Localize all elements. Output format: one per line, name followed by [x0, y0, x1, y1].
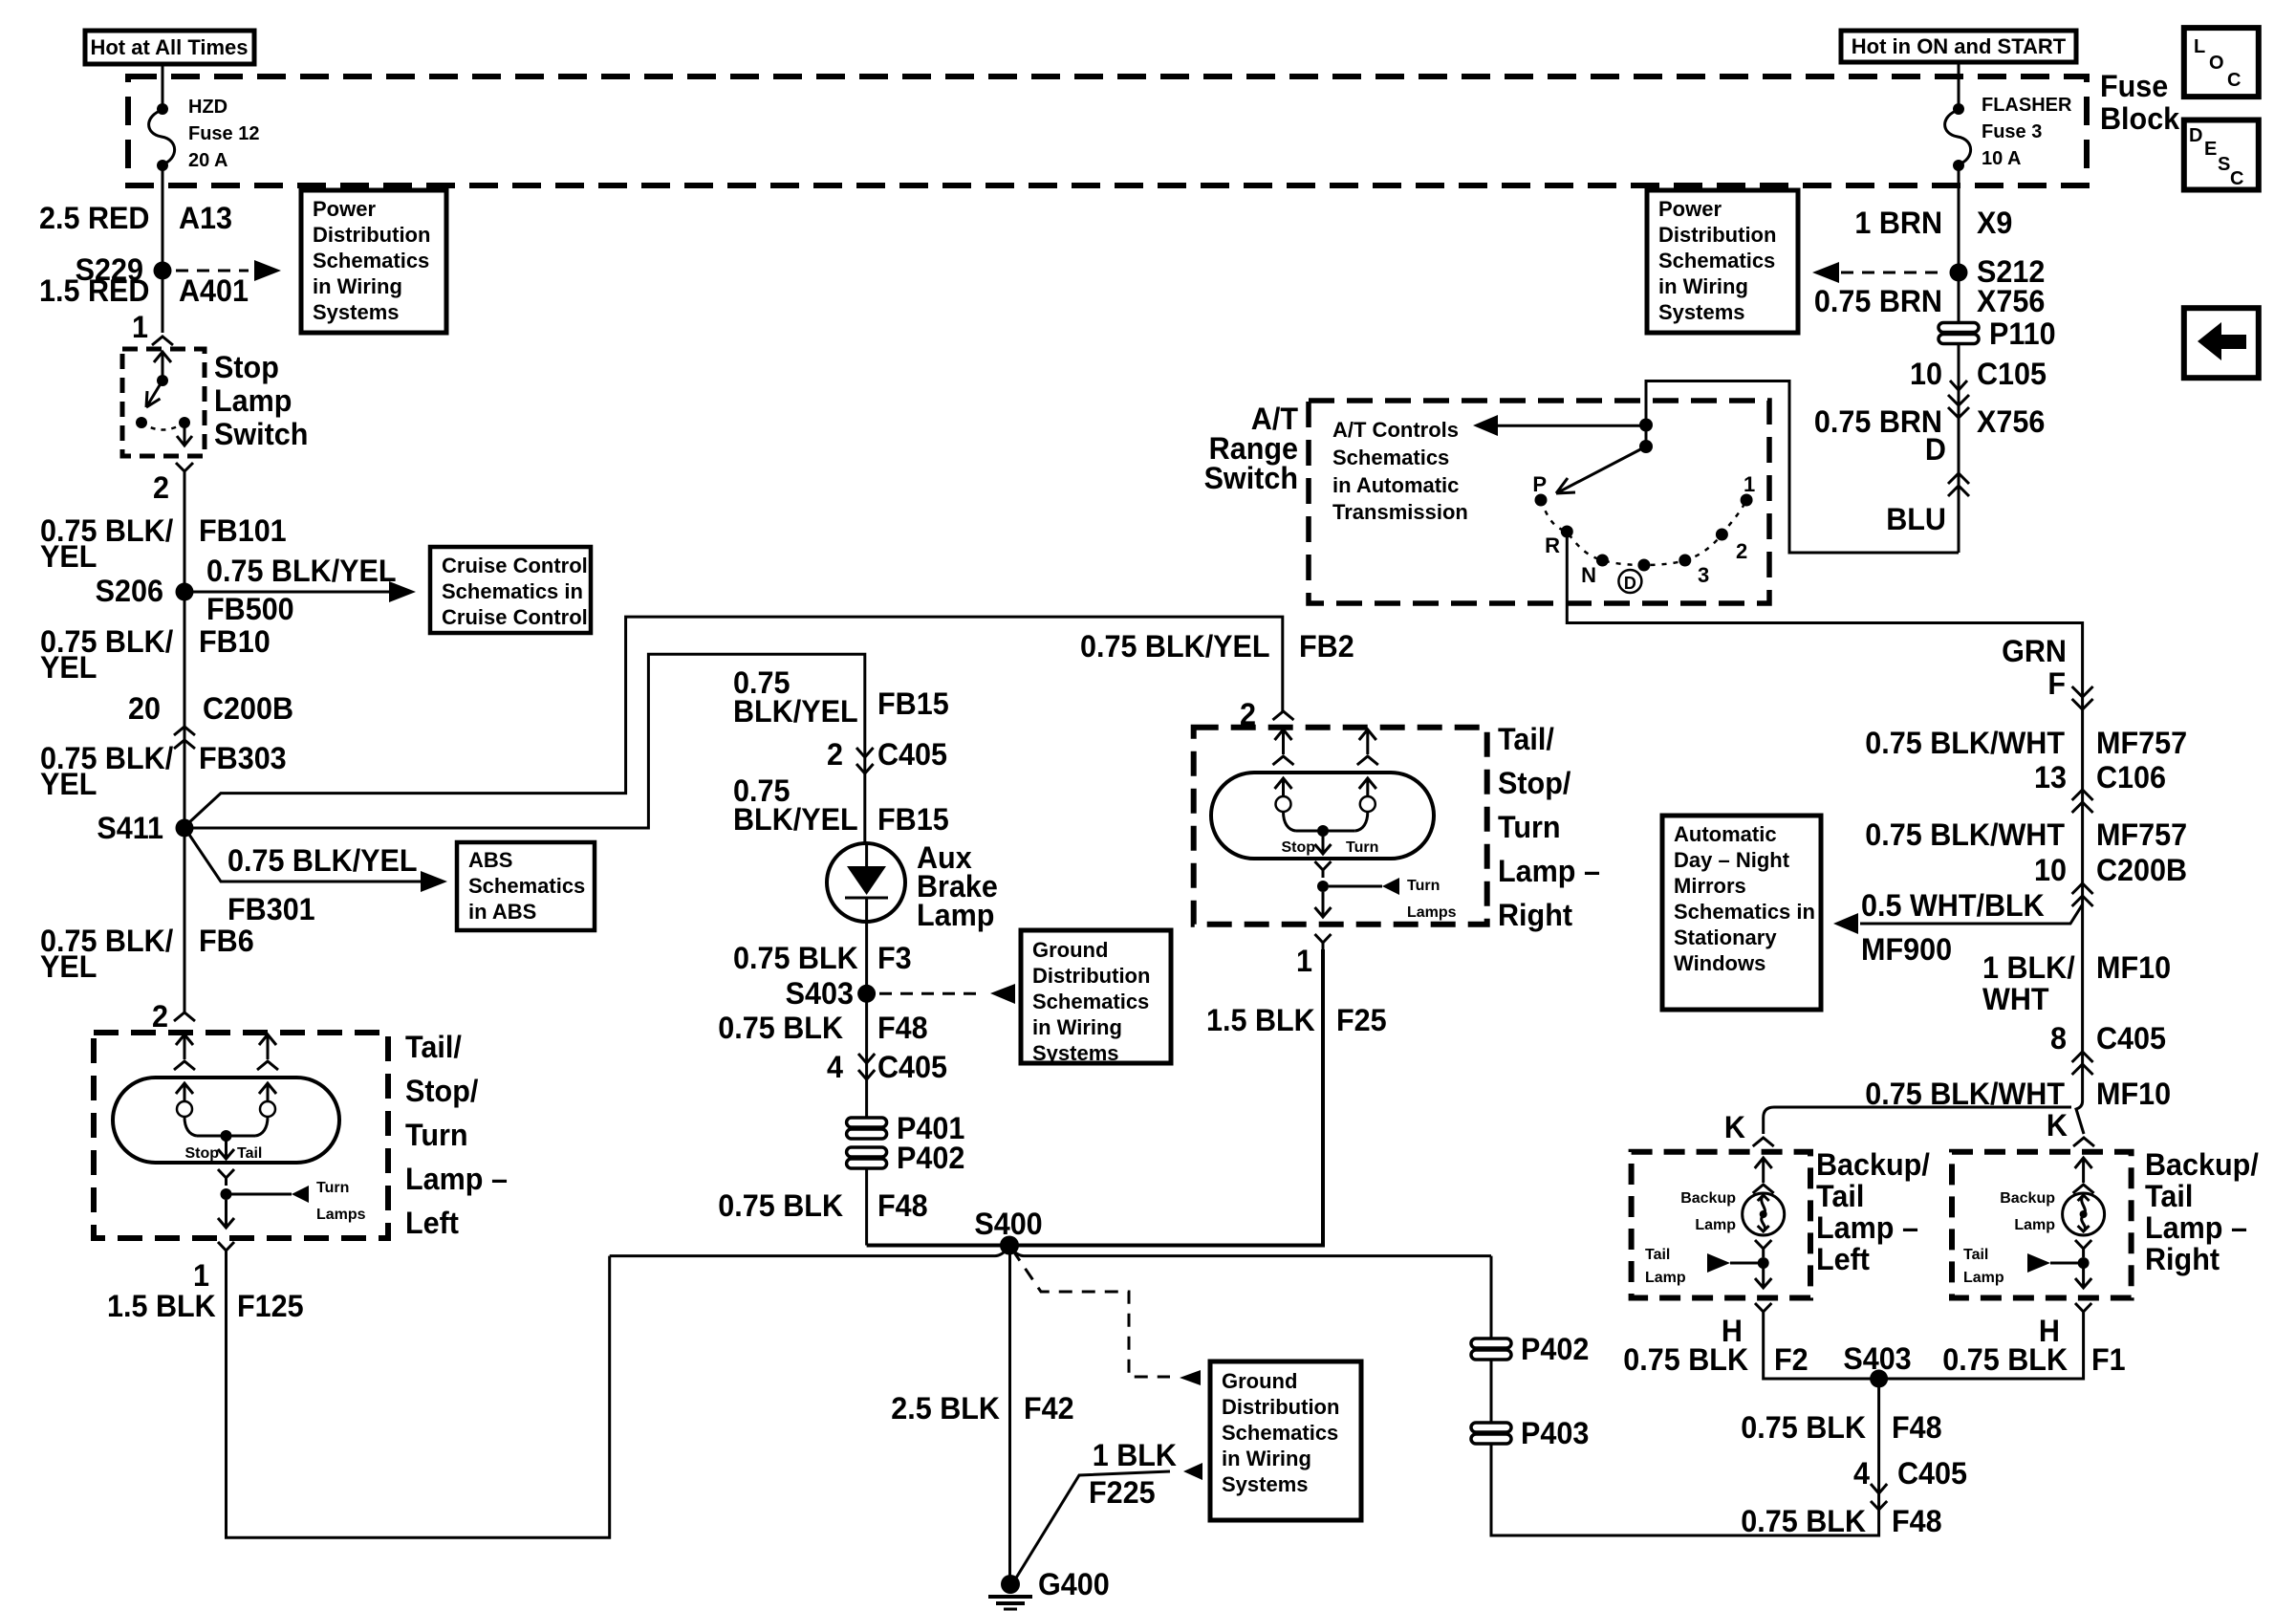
svg-text:0.75 BLK/WHT: 0.75 BLK/WHT	[1865, 816, 2065, 852]
connector C405 pin 2 labels	[827, 736, 947, 772]
svg-text:C200B: C200B	[2096, 852, 2187, 887]
svg-text:C106: C106	[2096, 759, 2166, 795]
left backup lamp pin K internal arrow	[1753, 1158, 1774, 1193]
svg-text:FB15: FB15	[877, 686, 949, 721]
connector C105 arrow and chevrons	[1948, 381, 1969, 418]
svg-text:in Wiring: in Wiring	[1658, 274, 1748, 298]
label Stop Lamp Switch	[214, 349, 308, 451]
label FLASHER Fuse 3 10 A	[1982, 95, 2072, 169]
connector C200B chevrons	[174, 727, 195, 749]
wire F42 to ground	[1008, 1246, 1011, 1585]
svg-text:Lamp: Lamp	[214, 382, 292, 418]
svg-text:1 BRN: 1 BRN	[1854, 205, 1942, 240]
wire A13	[162, 165, 164, 271]
svg-text:Distribution: Distribution	[313, 223, 430, 247]
svg-text:MF757: MF757	[2096, 816, 2187, 852]
svg-text:0.75 BLK/YEL: 0.75 BLK/YEL	[1080, 628, 1270, 664]
svg-text:S403: S403	[786, 975, 854, 1011]
svg-text:Hot in ON and START: Hot in ON and START	[1852, 34, 2067, 58]
right backup/tail lamp dashed box	[1952, 1152, 2132, 1298]
svg-text:C: C	[2227, 70, 2241, 91]
svg-text:Backup: Backup	[1680, 1190, 1736, 1207]
svg-text:D: D	[1925, 431, 1946, 467]
svg-text:S: S	[2218, 154, 2230, 175]
wire trunk through S400 to right lamp	[867, 949, 1323, 1246]
svg-text:A/T Controls: A/T Controls	[1332, 418, 1459, 442]
reference arrow to A/T controls	[1473, 415, 1646, 436]
svg-text:Tail/: Tail/	[405, 1029, 462, 1064]
svg-text:Lamp: Lamp	[1645, 1270, 1686, 1286]
svg-text:Backup/: Backup/	[2145, 1146, 2259, 1182]
svg-text:FB500: FB500	[206, 591, 294, 626]
label 0.75 BLK/YEL FB303	[40, 740, 287, 801]
A/T switch input node dots	[1639, 419, 1653, 454]
stop lamp switch pivot dot	[157, 375, 168, 386]
wire GRN from R contact to right rail	[1567, 532, 2082, 1101]
svg-text:FB15: FB15	[877, 801, 949, 837]
svg-text:FB10: FB10	[199, 623, 271, 659]
svg-text:Tail: Tail	[1963, 1247, 1988, 1263]
connector chevron below right lamp box	[1315, 934, 1332, 949]
svg-text:in ABS: in ABS	[468, 900, 536, 924]
svg-text:K: K	[1724, 1109, 1745, 1144]
label 0.75 BLK F48	[718, 1010, 927, 1045]
svg-text:in Wiring: in Wiring	[1222, 1447, 1311, 1470]
svg-text:20: 20	[128, 690, 161, 726]
DESC box	[2184, 120, 2259, 190]
svg-text:Tail: Tail	[1816, 1178, 1864, 1213]
splice S400	[974, 1206, 1042, 1254]
labels Stop Turn inside right lamp	[1281, 839, 1378, 856]
label 0.75 BLK F2	[1623, 1341, 1808, 1377]
label 1 BRN X9	[1854, 205, 2012, 240]
label 1.5 BLK F125	[107, 1288, 304, 1323]
svg-text:FLASHER: FLASHER	[1982, 95, 2072, 116]
svg-text:P: P	[1532, 472, 1547, 496]
svg-text:1.5 BLK: 1.5 BLK	[107, 1288, 216, 1323]
svg-text:X756: X756	[1977, 403, 2045, 439]
label 0.75 BLK/YEL FB10	[40, 623, 271, 685]
svg-text:YEL: YEL	[40, 538, 97, 574]
connector chevron below left backup lamp	[1755, 1303, 1771, 1319]
svg-text:F2: F2	[1774, 1341, 1809, 1377]
svg-text:Stationary: Stationary	[1674, 925, 1777, 949]
svg-text:Lamp –: Lamp –	[405, 1161, 508, 1196]
svg-text:A401: A401	[179, 272, 249, 308]
A/T range switch dashed box	[1309, 401, 1769, 603]
svg-text:K: K	[2047, 1107, 2068, 1143]
svg-text:MF900: MF900	[1861, 931, 1952, 967]
label box Hot at All Times	[85, 31, 254, 64]
wire jog into right backup lamp	[2076, 1101, 2084, 1134]
svg-text:C405: C405	[1897, 1455, 1967, 1491]
svg-text:YEL: YEL	[40, 948, 97, 984]
svg-text:F25: F25	[1336, 1002, 1387, 1037]
svg-text:Switch: Switch	[214, 416, 308, 451]
svg-text:BLU: BLU	[1886, 501, 1946, 536]
svg-text:in Wiring: in Wiring	[313, 274, 402, 298]
svg-text:0.75 BLK/YEL: 0.75 BLK/YEL	[227, 842, 418, 878]
dashed reference arrow from S229 to Power Distribution	[176, 260, 281, 281]
svg-text:0.75 BLK: 0.75 BLK	[718, 1187, 843, 1223]
connector C405 pin 4 labels	[827, 1049, 947, 1084]
label 2.5 RED A13	[39, 200, 232, 235]
label 0.75 BLK/YEL FB2	[1080, 628, 1354, 664]
left backup lamp bulb	[1743, 1193, 1785, 1235]
left backup lamp output arrow	[1755, 1263, 1771, 1288]
svg-text:Schematics: Schematics	[1032, 990, 1149, 1013]
label Fuse Block	[2100, 68, 2180, 136]
reference box Cruise Control Schematics in Cruise Control	[430, 547, 591, 633]
wire FB500 branch to cruise control	[193, 581, 416, 602]
svg-text:Right: Right	[1498, 897, 1573, 932]
svg-text:P403: P403	[1521, 1415, 1589, 1450]
svg-text:Switch: Switch	[1204, 460, 1298, 495]
connector C405 arrow and chevron (pin 2)	[856, 748, 874, 773]
connector chevron below left lamp box	[218, 1242, 234, 1258]
connector chevron below right backup lamp	[2075, 1303, 2091, 1319]
connector C405 chevrons (right)	[2072, 1052, 2093, 1075]
label Backup/Tail Lamp - Right	[2145, 1146, 2259, 1276]
left backup lamp lower chevron	[1755, 1240, 1771, 1257]
left lamp filament stop	[176, 1083, 197, 1136]
splice S212	[1950, 253, 2046, 289]
left lamp turn lamps tap dot	[221, 1188, 232, 1200]
svg-text:YEL: YEL	[40, 649, 97, 685]
label Tail/Stop/Turn Lamp - Right	[1498, 721, 1600, 932]
svg-text:MF10: MF10	[2096, 949, 2171, 985]
wire branch line below S400	[610, 1247, 1491, 1256]
splice S229	[76, 251, 172, 287]
LOC box	[2184, 28, 2259, 97]
label 1.5 RED A401	[39, 272, 249, 308]
labels Stop Tail inside left lamp	[184, 1145, 262, 1162]
right backup lamp lower chevron	[2075, 1240, 2091, 1257]
stop lamp switch dashed travel arc	[141, 423, 184, 430]
splice S403 (middle)	[786, 975, 876, 1011]
connector chevron at right lamp pin 2	[1273, 711, 1294, 720]
connector C200B chevrons (right)	[2072, 883, 2093, 906]
svg-text:Lamp: Lamp	[1963, 1270, 2004, 1286]
splice S403 (rear)	[1843, 1340, 1911, 1387]
svg-text:Turn: Turn	[1498, 809, 1561, 844]
label box Hot in ON and START	[1841, 31, 2076, 62]
label 0.75 BRN X756 (lower)	[1814, 403, 2045, 439]
svg-text:Turn: Turn	[1407, 878, 1440, 894]
svg-text:4: 4	[827, 1049, 843, 1084]
connector chevron at left lamp pin 2	[174, 1012, 195, 1021]
wire BLU routing to A/T range switch	[1646, 381, 1959, 554]
wire X9	[1958, 165, 1960, 272]
tail lamp pointer right	[1963, 1247, 2090, 1286]
pass-through grommet P401	[847, 1110, 965, 1145]
label 0.75 BLK F48 (rear lower)	[1741, 1503, 1941, 1538]
svg-text:C200B: C200B	[203, 690, 293, 726]
wire to C105	[1958, 343, 1960, 553]
splice S411	[97, 810, 193, 845]
svg-text:Backup/: Backup/	[1816, 1146, 1930, 1182]
connector C200B pin 10 labels	[2034, 852, 2187, 887]
reference box Ground Distribution Schematics in Wiring Systems (middle)	[1021, 930, 1171, 1065]
svg-text:20 A: 20 A	[188, 150, 228, 171]
left lamp second terminal internal arrow	[257, 1034, 278, 1070]
wire FB15 feed from S411 to aux brake lamp	[193, 654, 865, 828]
svg-text:F48: F48	[877, 1010, 928, 1045]
svg-text:X756: X756	[1977, 283, 2045, 318]
svg-text:FB6: FB6	[199, 923, 254, 958]
label Backup/Tail Lamp - Left	[1816, 1146, 1930, 1276]
wire MF10 branch to left backup lamp	[1764, 1107, 2071, 1134]
svg-text:Backup: Backup	[2000, 1190, 2055, 1207]
svg-text:Lamp –: Lamp –	[2145, 1209, 2247, 1245]
svg-text:X9: X9	[1977, 205, 2012, 240]
svg-text:Schematics: Schematics	[1658, 249, 1775, 272]
A/T switch D contact circled letter	[1618, 570, 1641, 593]
svg-text:Left: Left	[405, 1205, 459, 1240]
svg-text:P110: P110	[1989, 316, 2056, 351]
aux brake lamp	[827, 843, 905, 922]
svg-text:1 BLK: 1 BLK	[1093, 1437, 1177, 1472]
A/T switch contact dots	[1535, 494, 1753, 572]
label 0.75 BLK F1	[1942, 1341, 2125, 1377]
svg-text:2: 2	[153, 469, 169, 505]
connector C405 pin 8 labels	[2050, 1020, 2166, 1056]
ground G400	[988, 1566, 1110, 1609]
wire from Hot at All Times into fuse block	[162, 64, 164, 109]
label 0.75 BLK F48 (rear upper)	[1741, 1409, 1941, 1445]
reference box Power Distribution Schematics in Wiring Systems (right)	[1647, 190, 1798, 333]
turn lamps pointer of right lamp	[1329, 878, 1457, 921]
label 0.75 BLK/YEL FB6	[40, 923, 254, 984]
label 0.75 BLK/WHT MF10	[1865, 1076, 2171, 1111]
connector chevron at stop lamp switch pin 1	[152, 337, 173, 345]
svg-text:FB303: FB303	[199, 740, 287, 775]
svg-text:Tail/: Tail/	[1498, 721, 1554, 756]
right lamp turn lamps tap dot	[1317, 881, 1329, 892]
svg-text:Stop/: Stop/	[405, 1073, 479, 1108]
svg-text:E: E	[2204, 139, 2217, 160]
svg-text:Fuse 3: Fuse 3	[1982, 121, 2042, 142]
label 1 BLK/WHT MF10	[1982, 949, 2171, 1016]
svg-text:Tail: Tail	[2145, 1178, 2193, 1213]
svg-text:FB301: FB301	[227, 891, 315, 926]
left lamp filament common bar	[197, 1130, 255, 1159]
svg-text:Tail: Tail	[237, 1145, 262, 1162]
wire F48 (lower)	[865, 1168, 868, 1246]
svg-text:Automatic: Automatic	[1674, 822, 1777, 846]
svg-text:4: 4	[1853, 1455, 1870, 1491]
wire F48 from S403 down	[1491, 1256, 1879, 1535]
svg-text:10 A: 10 A	[1982, 148, 2022, 169]
A/T switch contact labels	[1532, 472, 1755, 587]
label Backup Lamp left	[1680, 1190, 1736, 1233]
svg-text:2.5 RED: 2.5 RED	[39, 200, 149, 235]
svg-text:P402: P402	[897, 1140, 964, 1175]
svg-text:Ground: Ground	[1222, 1369, 1297, 1393]
svg-text:Stop: Stop	[184, 1145, 219, 1162]
svg-text:D: D	[1624, 574, 1636, 593]
svg-text:2: 2	[152, 998, 168, 1034]
svg-text:Windows: Windows	[1674, 951, 1765, 975]
svg-text:Lamp: Lamp	[917, 897, 994, 932]
svg-text:Fuse: Fuse	[2100, 68, 2168, 103]
wire FB301 branch to ABS	[187, 832, 447, 892]
svg-text:L: L	[2194, 36, 2205, 57]
svg-text:1 BLK/: 1 BLK/	[1982, 949, 2075, 985]
right lamp filament turn	[1355, 778, 1376, 831]
svg-text:FB2: FB2	[1299, 628, 1354, 664]
svg-text:0.75 BRN: 0.75 BRN	[1814, 283, 1942, 318]
dashed reference arrow from S212 to Power Distribution	[1812, 262, 1946, 283]
stop lamp switch blade arrow	[146, 381, 162, 407]
tail lamp pointer left	[1645, 1247, 1769, 1286]
svg-text:Schematics: Schematics	[1222, 1421, 1338, 1445]
wire F125 from left lamp to S400	[227, 1256, 610, 1538]
svg-text:Schematics in: Schematics in	[442, 579, 583, 603]
svg-text:O: O	[2209, 53, 2224, 74]
svg-text:Distribution: Distribution	[1222, 1395, 1339, 1419]
right lamp bulb stadium	[1211, 773, 1434, 859]
connector C405 arrow and chevron (pin 4)	[858, 1054, 875, 1079]
pass-through grommet P402 (middle)	[847, 1140, 965, 1175]
svg-text:Cruise Control: Cruise Control	[442, 554, 588, 577]
svg-text:0.75 BRN: 0.75 BRN	[1814, 403, 1942, 439]
svg-text:Lamp: Lamp	[1695, 1217, 1736, 1233]
label Tail/Stop/Turn Lamp - Left	[405, 1029, 508, 1240]
stop lamp switch internal arrow pin 1	[154, 352, 171, 381]
svg-text:MF757: MF757	[2096, 725, 2187, 760]
label 0.75 BLK/WHT MF757 (upper)	[1865, 725, 2187, 760]
svg-text:Turn: Turn	[1346, 839, 1378, 856]
connector C200B pin 20 labels	[128, 690, 293, 726]
label 2.5 BLK F42	[891, 1390, 1073, 1426]
svg-text:Lamps: Lamps	[316, 1207, 366, 1223]
svg-text:FB101: FB101	[199, 512, 287, 548]
left backup/tail lamp dashed box	[1632, 1152, 1810, 1298]
svg-text:Ground: Ground	[1032, 938, 1108, 962]
label 0.75 BLK F3	[733, 940, 912, 975]
wire X756 (upper)	[1958, 272, 1960, 323]
svg-text:Systems: Systems	[1658, 300, 1745, 324]
svg-text:F125: F125	[237, 1288, 304, 1323]
svg-text:0.75 BLK: 0.75 BLK	[1741, 1409, 1866, 1445]
svg-text:P402: P402	[1521, 1331, 1589, 1366]
connector chevron below stop lamp switch	[176, 463, 193, 478]
fuse block dashed box	[128, 76, 2087, 185]
wire FB2 feed from S411 up to right lamp	[187, 617, 1283, 824]
wire F225 branch to ground distribution	[1015, 1463, 1202, 1579]
svg-text:Distribution: Distribution	[1032, 964, 1150, 988]
svg-text:1: 1	[1296, 943, 1312, 978]
svg-text:C405: C405	[877, 1049, 947, 1084]
svg-text:Hot at All Times: Hot at All Times	[90, 35, 248, 59]
svg-text:G400: G400	[1038, 1566, 1110, 1601]
turn lamps pointer of left lamp	[231, 1180, 366, 1223]
svg-text:Schematics: Schematics	[1332, 446, 1449, 469]
reference text A/T Controls Schematics in Automatic Transmission	[1332, 418, 1468, 524]
connector C405 pin 4 labels (rear)	[1853, 1455, 1967, 1491]
svg-text:Power: Power	[313, 197, 376, 221]
dashed reference arrow from S400 to ground distribution	[1012, 1250, 1201, 1385]
wire F3	[865, 922, 868, 993]
label HZD Fuse 12 20 A	[188, 97, 259, 171]
left lamp pin 2 internal arrow	[174, 1034, 195, 1070]
A/T switch wiper arrow to P	[1556, 446, 1646, 493]
svg-text:Tail: Tail	[1645, 1247, 1670, 1263]
label 0.75 BLK/YEL FB101	[40, 512, 287, 574]
svg-text:in Wiring: in Wiring	[1032, 1015, 1122, 1039]
svg-text:2: 2	[1736, 539, 1747, 563]
svg-text:0.75 BLK: 0.75 BLK	[1741, 1503, 1866, 1538]
wire FB15 through C405	[863, 722, 866, 843]
svg-text:Stop: Stop	[1281, 839, 1315, 856]
stop lamp switch output arrow pin 2	[177, 423, 192, 446]
svg-text:F48: F48	[877, 1187, 928, 1223]
svg-text:F: F	[2047, 665, 2066, 701]
label 1.5 BLK F25	[1206, 1002, 1387, 1037]
left lamp bulb stadium	[113, 1078, 339, 1163]
label 0.75 BLK F48 (lower)	[718, 1187, 927, 1223]
svg-text:10: 10	[2034, 852, 2067, 887]
svg-text:Systems: Systems	[313, 300, 400, 324]
svg-text:Lamp –: Lamp –	[1816, 1209, 1918, 1245]
svg-text:Left: Left	[1816, 1241, 1870, 1276]
svg-text:R: R	[1545, 533, 1560, 557]
label 0.75 BLK/YEL FB15 (upper)	[733, 664, 949, 729]
svg-text:Cruise Control: Cruise Control	[442, 605, 588, 629]
svg-text:Distribution: Distribution	[1658, 223, 1776, 247]
svg-text:1.5 RED: 1.5 RED	[39, 272, 149, 308]
svg-text:ABS: ABS	[468, 848, 512, 872]
wire F48 (upper)	[865, 993, 868, 1117]
back arrow box	[2184, 308, 2259, 378]
svg-text:F225: F225	[1089, 1474, 1156, 1510]
wire MF900 branch to mirrors	[1833, 904, 2083, 934]
connector C105 pin 10 labels	[1910, 356, 2047, 391]
label 0.75 BRN X756	[1814, 283, 2045, 318]
svg-text:YEL: YEL	[40, 766, 97, 801]
svg-text:S206: S206	[96, 573, 163, 608]
svg-text:Stop/: Stop/	[1498, 765, 1571, 800]
label 0.75 BLK/WHT MF757 (lower)	[1865, 816, 2187, 852]
svg-text:0.5 WHT/BLK: 0.5 WHT/BLK	[1861, 887, 2045, 923]
svg-text:GRN: GRN	[2002, 633, 2067, 668]
reference box Ground Distribution Schematics in Wiring Systems (bottom)	[1210, 1361, 1361, 1520]
svg-text:Schematics: Schematics	[313, 249, 429, 272]
svg-text:Transmission: Transmission	[1332, 500, 1468, 524]
svg-text:MF10: MF10	[2096, 1076, 2171, 1111]
wire from Hot in ON and START into fuse block	[1958, 62, 1960, 109]
svg-text:D: D	[2189, 125, 2202, 146]
connector chevron at right backup lamp pin K	[2073, 1138, 2094, 1146]
svg-text:F3: F3	[877, 940, 912, 975]
svg-text:WHT: WHT	[1982, 981, 2049, 1016]
svg-text:Schematics in: Schematics in	[1674, 900, 1815, 924]
left tail/stop/turn lamp dashed box	[94, 1033, 388, 1238]
label 0.5 WHT/BLK MF900	[1861, 887, 2045, 967]
svg-text:Day – Night: Day – Night	[1674, 848, 1790, 872]
svg-text:8: 8	[2050, 1020, 2067, 1056]
wire F2/F1 joining at S403	[1764, 1319, 2084, 1379]
svg-text:1: 1	[132, 309, 148, 344]
pass-through grommet P403	[1471, 1415, 1589, 1450]
right backup lamp pin K internal arrow	[2073, 1158, 2094, 1193]
svg-text:N: N	[1581, 563, 1596, 587]
svg-text:Systems: Systems	[1032, 1041, 1119, 1065]
svg-text:Stop: Stop	[214, 349, 279, 384]
svg-text:10: 10	[1910, 356, 1942, 391]
right tail/stop/turn lamp dashed box	[1194, 728, 1487, 925]
